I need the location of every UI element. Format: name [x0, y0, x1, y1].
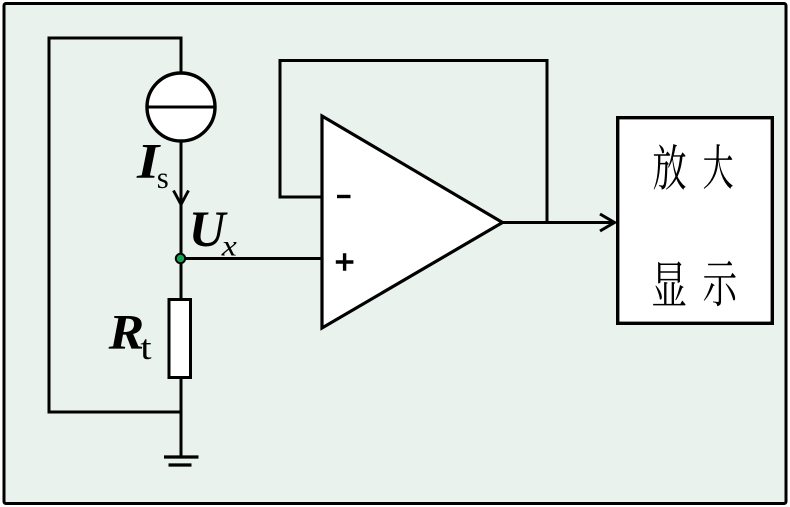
- box label char 大 (da): [704, 144, 733, 189]
- wire node to op-amp plus input: [181, 257, 322, 260]
- label Is: [136, 133, 162, 189]
- ground bar 2: [169, 463, 192, 466]
- output wire: [503, 221, 615, 224]
- wire current source to node: [180, 140, 183, 257]
- box label char 示 (shi): [704, 261, 736, 307]
- wire resistor to ground: [180, 378, 183, 458]
- current source bar: [148, 106, 215, 109]
- output arrow head: [600, 214, 615, 231]
- svg-text:t: t: [140, 328, 152, 367]
- resistor Rt body: [169, 300, 191, 378]
- wire node to resistor: [180, 259, 183, 300]
- svg-text:s: s: [157, 161, 169, 195]
- svg-text:R: R: [108, 305, 145, 360]
- current arrow head: [174, 191, 189, 205]
- feedback wire: [280, 61, 547, 223]
- wire left loop: [49, 38, 183, 412]
- op-amp U1 triangle: [322, 116, 503, 328]
- current source Is circle: [147, 73, 215, 141]
- display box: [618, 118, 773, 324]
- label Rt: [108, 305, 145, 360]
- op-amp minus sign: [337, 195, 351, 198]
- box label char 显 (xian): [653, 261, 686, 305]
- svg-text:x: x: [221, 228, 237, 262]
- label Ux: [189, 201, 228, 257]
- op-amp plus sign: [336, 253, 354, 271]
- box label char 放 (fang): [654, 144, 686, 190]
- wire current source top stem: [180, 37, 183, 75]
- node Ux dot: [176, 254, 185, 263]
- ground bar 1: [164, 455, 199, 458]
